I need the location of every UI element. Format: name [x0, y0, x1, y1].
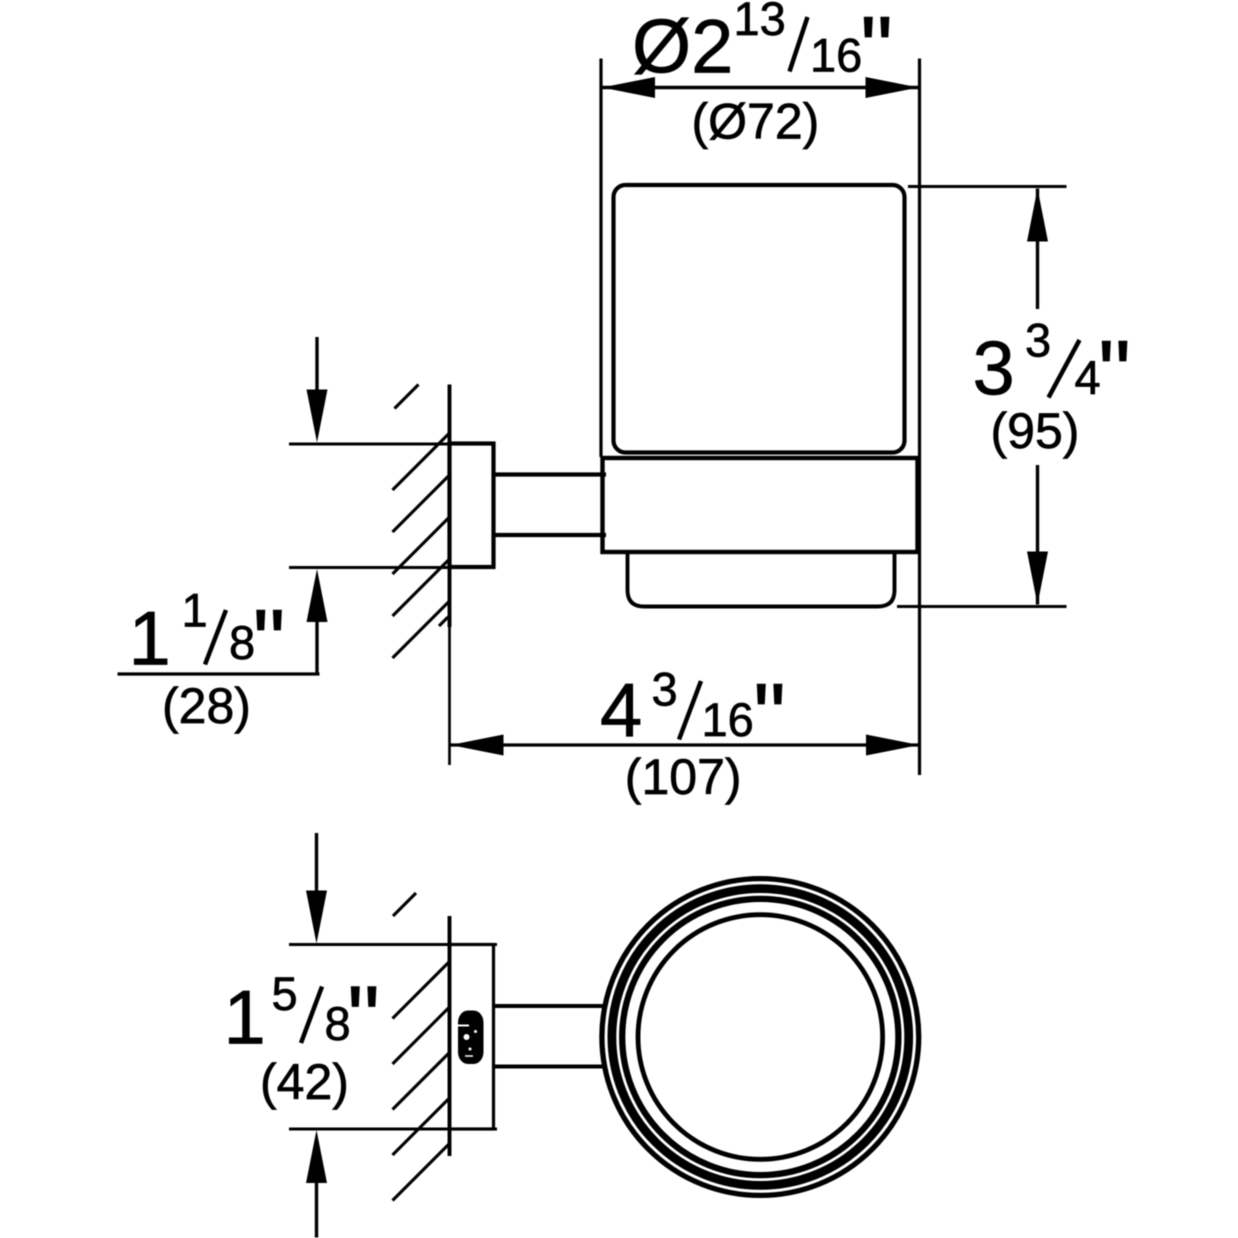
svg-text:(42): (42) [260, 1054, 349, 1110]
svg-text:4: 4 [1075, 351, 1101, 404]
svg-text:(107): (107) [625, 749, 742, 805]
dimension line (height dim) [1036, 189, 1039, 605]
wall hatching (bottom view) [393, 893, 450, 1201]
leader underline (depth dim side view) [118, 672, 320, 675]
extension line right (diameter dim, shared with width dim) [918, 59, 921, 776]
escutcheon plate (bottom view) [450, 945, 494, 1130]
wall line (side view) [448, 385, 452, 628]
arrow left (diameter dim) [602, 77, 655, 98]
svg-text:8: 8 [229, 616, 255, 669]
wall hatching (side view) [393, 385, 450, 659]
svg-text:(95): (95) [991, 403, 1080, 459]
svg-text:1: 1 [182, 584, 208, 637]
svg-text:": " [347, 968, 380, 1070]
arrow up with leader (depth dim side view) [307, 569, 328, 622]
svg-text:5: 5 [272, 967, 298, 1020]
arrow right (diameter dim) [866, 77, 919, 98]
arrow down (depth dim bottom view) [306, 891, 327, 944]
extension line wall continuation (width dim) [448, 627, 451, 765]
knurled screw detail [458, 1011, 484, 1065]
svg-text:": " [860, 0, 893, 101]
holder ring inner circle (bottom view) [638, 915, 883, 1160]
dimension line above (depth dim side view) [315, 337, 318, 390]
arrow down (depth dim side view) [307, 390, 328, 443]
svg-text:": " [753, 666, 786, 768]
holder ring (side view) [603, 458, 918, 552]
svg-text:13: 13 [734, 0, 786, 45]
holder ring third circle (bottom view) [622, 899, 898, 1175]
arrow right (width dim) [866, 735, 919, 756]
holder ring outer circle (bottom view) [602, 879, 919, 1196]
extension line bottom (height dim) [897, 605, 1067, 608]
holder ring second circle (bottom view) [612, 889, 909, 1186]
arrow left (width dim) [451, 735, 504, 756]
extension line left (diameter dim) [599, 59, 602, 458]
svg-text:16: 16 [702, 693, 754, 746]
dimension text diameter 2 13/16 inch [632, 0, 893, 101]
svg-text:4: 4 [600, 669, 642, 754]
extension line bottom (depth dim bottom view) [289, 1127, 497, 1130]
arrow down (height dim) [1027, 552, 1048, 605]
glass tumbler (side view) [614, 185, 905, 453]
svg-text:1: 1 [224, 976, 266, 1061]
dimension line (width dim) [451, 743, 920, 746]
svg-text:Ø2: Ø2 [632, 5, 733, 90]
dimension line above (depth dim bottom view) [315, 833, 318, 892]
mounting arm (side view) [494, 475, 607, 536]
dimension line below (depth dim bottom view) [315, 1183, 318, 1238]
svg-text:(Ø72): (Ø72) [692, 94, 820, 150]
dimension text 3 3/4 inch [973, 314, 1131, 425]
escutcheon plate (side view) [450, 444, 494, 568]
extension line top (depth dim bottom view) [289, 943, 497, 946]
arrow up (height dim) [1027, 189, 1048, 242]
svg-text:1: 1 [129, 597, 171, 682]
dimension text 4 3/16 inch [600, 663, 786, 768]
extension line bottom (depth dim side view) [289, 566, 450, 569]
svg-text:3: 3 [973, 327, 1015, 412]
extension line top (depth dim side view) [289, 442, 450, 445]
mounting arm (bottom view) [494, 1006, 607, 1067]
svg-text:": " [1098, 323, 1131, 425]
svg-text:16: 16 [810, 29, 862, 82]
wall line (bottom view) [448, 916, 452, 1156]
svg-text:": " [253, 592, 286, 694]
dimension text 1 5/8 inch [224, 967, 380, 1070]
dimension text 1 1/8 inch [129, 584, 286, 694]
arrow up (depth dim bottom view) [306, 1130, 327, 1183]
extension line top (height dim) [908, 185, 1067, 188]
dimension line (diameter dim) [602, 86, 919, 89]
glass bottom protruding below holder [628, 554, 895, 607]
svg-text:3: 3 [652, 663, 678, 716]
svg-text:(28): (28) [162, 678, 251, 734]
svg-text:3: 3 [1025, 314, 1051, 367]
